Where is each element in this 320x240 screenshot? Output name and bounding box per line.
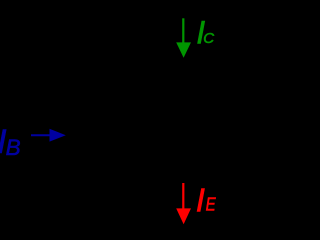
svg-text:B: B	[6, 135, 21, 160]
label IC	[196, 14, 214, 50]
wire collector vertical (node C)	[182, 0, 185, 77]
svg-text:C: C	[203, 30, 214, 47]
label IB	[0, 123, 21, 161]
transistor Q1 (NPN) base bar	[98, 103, 103, 167]
wire emitter diagonal	[102, 152, 183, 193]
wire base (node B)	[22, 134, 98, 137]
current arrow IB (blue, right into base)	[31, 129, 66, 142]
label IE	[196, 181, 217, 218]
wire collector diagonal	[102, 77, 183, 118]
svg-text:I: I	[196, 181, 205, 218]
current arrow IC (green, down into collector)	[176, 18, 191, 57]
transistor Q1 emitter arrowhead	[166, 179, 183, 193]
svg-text:E: E	[206, 194, 217, 215]
wire emitter vertical (node E)	[182, 193, 185, 238]
current arrow IE (red, down out of emitter)	[176, 183, 191, 224]
